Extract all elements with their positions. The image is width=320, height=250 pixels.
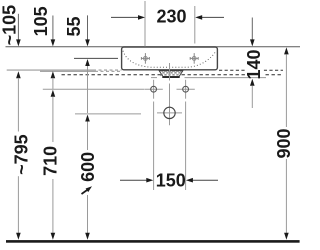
- dimension ~105 / ~795 line: [16, 14, 21, 240]
- dimension 230 extension line right: [194, 6, 196, 44]
- svg-text:230: 230: [156, 7, 186, 27]
- drain boss: [159, 71, 183, 77]
- label 140: [244, 48, 264, 79]
- wire 600 level line: [75, 113, 141, 115]
- basin outline: [122, 47, 218, 70]
- dimension 600 diagonal pointer arrow: [82, 186, 93, 194]
- svg-text:710: 710: [41, 146, 61, 176]
- wire faucet level line: [74, 57, 118, 59]
- dimension 230 line with arrows: [111, 15, 224, 20]
- dimension 55 / 600 line: [85, 15, 90, 239]
- wire dashed console line full: [62, 74, 284, 76]
- svg-text:~105: ~105: [0, 5, 20, 46]
- wire dashed console line upper right: [219, 69, 283, 71]
- dimension 105 / 710 line: [51, 16, 56, 240]
- svg-text:55: 55: [64, 16, 84, 36]
- svg-text:150: 150: [156, 171, 186, 191]
- svg-text:600: 600: [78, 152, 98, 182]
- svg-text:900: 900: [274, 128, 294, 158]
- node faucet hole left: [141, 53, 149, 64]
- dimension 230 extension line left: [144, 1, 146, 47]
- dimension 150 line with arrows: [120, 178, 218, 183]
- wire extension line fixing right down: [185, 102, 187, 191]
- svg-text:105: 105: [31, 6, 51, 36]
- node fixing hole left: [144, 80, 163, 99]
- wire extension line fixing left down: [153, 102, 155, 191]
- wire rim reference line: [6, 46, 301, 48]
- floor line: [6, 240, 300, 243]
- wire 710 level line: [43, 88, 144, 90]
- wire basin-bottom level line left: [7, 69, 93, 71]
- node drain outlet: [157, 63, 182, 125]
- label 150: [156, 171, 186, 191]
- svg-text:140: 140: [244, 49, 264, 79]
- basin interior hidden curve: [123, 51, 216, 68]
- node faucet hole right: [190, 53, 198, 64]
- svg-text:~795: ~795: [12, 134, 32, 175]
- dimension 140 line: [250, 18, 255, 109]
- wire console top edge left: [40, 70, 95, 72]
- node fixing hole right: [177, 80, 195, 99]
- dimension 900 line: [284, 47, 289, 239]
- wire 140 level line: [151, 77, 157, 79]
